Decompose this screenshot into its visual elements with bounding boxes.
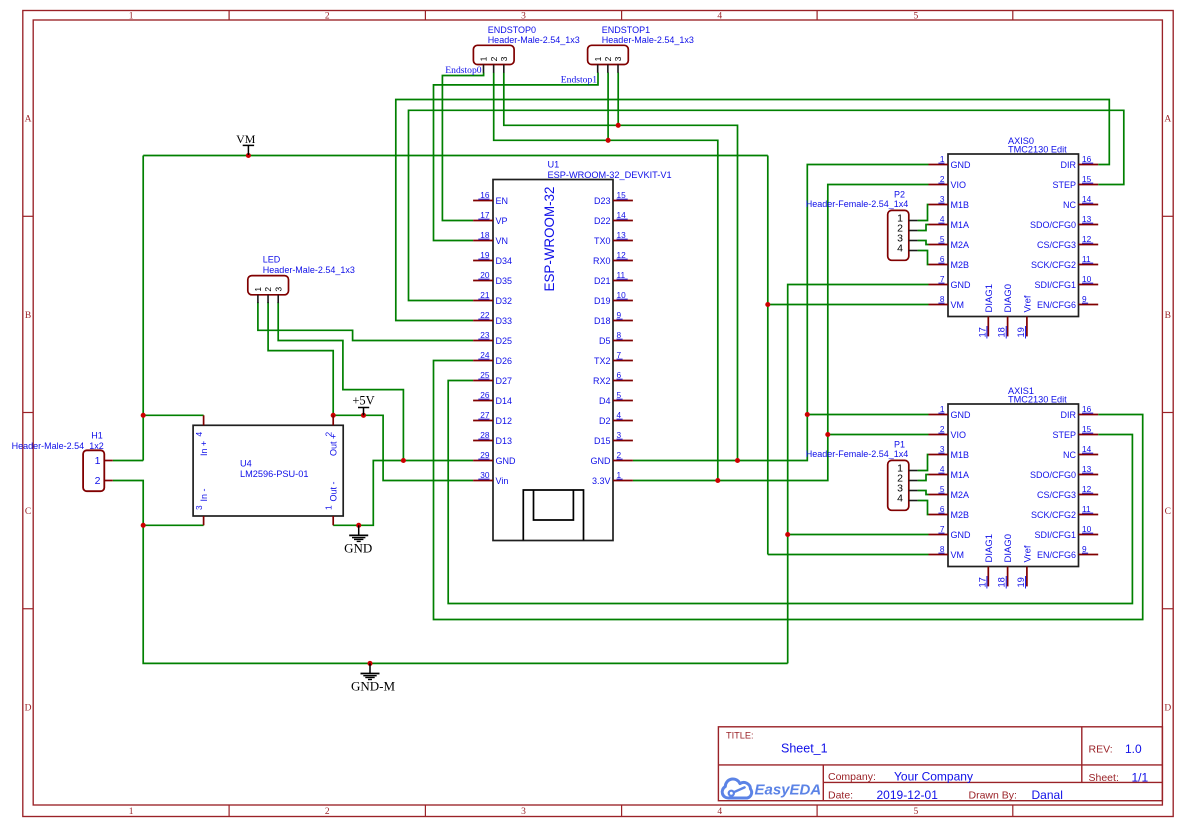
svg-text:In +: In + — [199, 441, 209, 456]
svg-text:1: 1 — [940, 154, 945, 164]
svg-text:ESP-WROOM-32_DEVKIT-V1: ESP-WROOM-32_DEVKIT-V1 — [548, 170, 672, 180]
U1 pin 18 VN — [473, 230, 508, 246]
svg-text:2: 2 — [325, 807, 330, 817]
svg-text:29: 29 — [480, 450, 490, 460]
svg-text:2: 2 — [940, 424, 945, 434]
svg-text:10: 10 — [1082, 274, 1092, 284]
svg-text:H1: H1 — [91, 431, 103, 441]
wire GND-M net: H1 pin2, U4 In-, AXIS pin7 — [113, 285, 929, 664]
svg-text:4: 4 — [897, 243, 903, 255]
svg-text:REV:: REV: — [1089, 743, 1113, 755]
svg-text:DIAG0: DIAG0 — [1003, 534, 1014, 563]
wire net Endstop1 to ESP VN — [434, 73, 599, 241]
svg-text:SCK/CFG2: SCK/CFG2 — [1031, 260, 1076, 270]
ground symbol GND-M — [351, 663, 395, 693]
ENDSTOP1 Header-Male-2.54_1x3 — [588, 25, 694, 65]
svg-text:1: 1 — [593, 56, 603, 61]
power symbol +5V — [352, 394, 374, 416]
svg-text:GND-M: GND-M — [351, 678, 395, 693]
power symbol VM — [236, 132, 256, 155]
svg-text:1/1: 1/1 — [1132, 771, 1149, 785]
svg-text:3: 3 — [194, 505, 204, 510]
svg-text:Sheet:: Sheet: — [1089, 772, 1119, 784]
AXIS1 pin 2 VIO — [929, 424, 967, 440]
svg-text:13: 13 — [617, 230, 627, 240]
AXIS1 pin 11 SCK/CFG2 — [1031, 504, 1098, 520]
ENDSTOP0 Header-Male-2.54_1x3 — [473, 25, 579, 65]
U1 pin 16 EN — [473, 190, 508, 206]
svg-text:D27: D27 — [496, 376, 513, 386]
svg-text:D32: D32 — [496, 296, 513, 306]
AXIS1 pin 10 SDI/CFG1 — [1034, 524, 1098, 540]
svg-text:14: 14 — [1082, 194, 1092, 204]
svg-text:17: 17 — [977, 327, 987, 337]
svg-text:TMC2130 Edit: TMC2130 Edit — [1008, 144, 1067, 154]
pin 1 — [897, 213, 918, 225]
wire LED pin1 to ESP D25 — [258, 302, 473, 341]
svg-text:B: B — [25, 311, 31, 321]
pin 1 — [479, 56, 489, 72]
AXIS0 pin 4 M1A — [929, 214, 970, 230]
svg-text:VM: VM — [951, 300, 965, 310]
svg-text:M2B: M2B — [951, 510, 970, 520]
svg-text:16: 16 — [480, 190, 490, 200]
svg-text:10: 10 — [617, 290, 627, 300]
svg-text:2: 2 — [263, 287, 273, 292]
svg-text:7: 7 — [617, 350, 622, 360]
svg-text:26: 26 — [480, 390, 490, 400]
svg-text:3.3V: 3.3V — [592, 476, 611, 486]
svg-text:C: C — [1165, 507, 1171, 517]
svg-text:EN/CFG6: EN/CFG6 — [1037, 550, 1076, 560]
svg-text:16: 16 — [1082, 404, 1092, 414]
P2 Header-Female-2.54_1x4 — [806, 190, 909, 261]
svg-text:GND: GND — [344, 540, 372, 555]
title block — [718, 727, 1162, 802]
U1 pin 26 D14 — [473, 390, 512, 406]
svg-text:Date:: Date: — [828, 790, 853, 802]
svg-text:4: 4 — [617, 410, 622, 420]
U1 pin 27 D12 — [473, 410, 512, 426]
wire +5V net: U4 Out+, LED pin2, ESP Vin — [268, 302, 473, 481]
svg-text:D: D — [25, 703, 32, 713]
pin 2 — [897, 223, 918, 235]
wire AXIS1 DIR to ESP D26 — [434, 361, 1143, 620]
svg-text:Header-Male-2.54_1x3: Header-Male-2.54_1x3 — [263, 265, 355, 275]
AXIS0 pin 13 SDO/CFG0 — [1030, 214, 1098, 230]
svg-text:Drawn By:: Drawn By: — [969, 790, 1017, 802]
svg-text:CS/CFG3: CS/CFG3 — [1037, 240, 1076, 250]
svg-text:DIAG1: DIAG1 — [984, 284, 995, 313]
svg-text:LM2596-PSU-01: LM2596-PSU-01 — [240, 469, 308, 479]
svg-text:SDI/CFG1: SDI/CFG1 — [1034, 280, 1076, 290]
pin 4 — [897, 493, 918, 505]
svg-text:Header-Male-2.54_1x3: Header-Male-2.54_1x3 — [488, 35, 580, 45]
svg-text:EN: EN — [496, 196, 509, 206]
svg-text:D23: D23 — [594, 196, 611, 206]
svg-text:4: 4 — [717, 807, 722, 817]
svg-text:Your Company: Your Company — [894, 770, 973, 784]
svg-text:14: 14 — [617, 210, 627, 220]
svg-text:M2B: M2B — [951, 260, 970, 270]
svg-text:1: 1 — [940, 404, 945, 414]
svg-text:D18: D18 — [594, 316, 611, 326]
svg-text:DIR: DIR — [1061, 410, 1077, 420]
svg-text:21: 21 — [480, 290, 490, 300]
svg-text:A: A — [1164, 115, 1171, 125]
AXIS1 pin 6 M2B — [929, 504, 970, 520]
LED Header-Male-2.54_1x3 — [248, 255, 355, 295]
AXIS0 pin 6 M2B — [929, 254, 970, 270]
AXIS0 pin 2 VIO — [929, 174, 967, 190]
AXIS1 pin 13 SDO/CFG0 — [1030, 464, 1098, 480]
AXIS0 pin 10 SDI/CFG1 — [1034, 274, 1098, 290]
svg-text:20: 20 — [480, 270, 490, 280]
svg-text:SCK/CFG2: SCK/CFG2 — [1031, 510, 1076, 520]
svg-text:3: 3 — [521, 807, 526, 817]
AXIS1 pin 12 CS/CFG3 — [1037, 484, 1098, 500]
svg-text:15: 15 — [1082, 174, 1092, 184]
svg-text:TITLE:: TITLE: — [726, 731, 754, 741]
wire AXIS0 STEP to ESP D32 — [409, 110, 1124, 300]
svg-text:18: 18 — [997, 577, 1007, 587]
svg-text:NC: NC — [1063, 450, 1076, 460]
svg-text:DIR: DIR — [1061, 160, 1077, 170]
svg-text:D34: D34 — [496, 256, 513, 266]
svg-text:4: 4 — [194, 432, 204, 437]
pin 2 — [263, 287, 273, 303]
op-amp U4 LM2596-PSU-01 — [193, 425, 343, 516]
svg-text:D: D — [1164, 703, 1171, 713]
AXIS1 pin 8 VM — [929, 544, 965, 560]
U1 pin 28 D13 — [473, 430, 512, 446]
U1 pin 7 TX2 — [594, 350, 633, 366]
AXIS0 pin 7 GND — [929, 274, 972, 290]
svg-text:VP: VP — [496, 216, 508, 226]
svg-text:D19: D19 — [594, 296, 611, 306]
svg-text:Endstop0: Endstop0 — [445, 65, 481, 76]
svg-text:4: 4 — [717, 12, 722, 22]
svg-text:18: 18 — [480, 230, 490, 240]
svg-text:1: 1 — [253, 287, 263, 292]
pin 1 — [253, 287, 263, 303]
svg-text:5: 5 — [940, 484, 945, 494]
svg-text:19: 19 — [1016, 577, 1026, 587]
H1 pin 1 — [95, 455, 113, 467]
svg-text:28: 28 — [480, 430, 490, 440]
U1 pin 15 D23 — [594, 190, 633, 206]
pin 3 — [897, 483, 918, 495]
svg-text:In -: In - — [199, 488, 209, 501]
svg-text:7: 7 — [940, 274, 945, 284]
svg-text:EN/CFG6: EN/CFG6 — [1037, 300, 1076, 310]
svg-text:Company:: Company: — [828, 771, 876, 783]
AXIS0 pin 9 EN/CFG6 — [1037, 294, 1098, 310]
svg-text:8: 8 — [940, 544, 945, 554]
svg-text:VIO: VIO — [951, 430, 967, 440]
svg-text:VM: VM — [951, 550, 965, 560]
U1 pin 25 D27 — [473, 370, 512, 386]
svg-text:GND: GND — [496, 456, 517, 466]
svg-text:2019-12-01: 2019-12-01 — [877, 788, 939, 802]
AXIS0 pin 5 M2A — [929, 234, 970, 250]
svg-text:SDO/CFG0: SDO/CFG0 — [1030, 470, 1076, 480]
svg-text:GND: GND — [951, 160, 972, 170]
U1 pin 20 D35 — [473, 270, 512, 286]
U1 pin 22 D33 — [473, 310, 512, 326]
AXIS1 pin 5 M2A — [929, 484, 970, 500]
wire endstop pin3 net to GND — [504, 73, 738, 461]
U4 pin 4 In+ — [194, 415, 209, 456]
U1 pin 17 VP — [473, 210, 507, 226]
svg-text:24: 24 — [480, 350, 490, 360]
svg-text:VIO: VIO — [951, 180, 967, 190]
svg-text:Vref: Vref — [1023, 545, 1034, 562]
svg-text:M1B: M1B — [951, 200, 970, 210]
svg-text:1: 1 — [323, 505, 333, 510]
wire P1 to AXIS motor pins — [918, 455, 929, 515]
svg-text:GND: GND — [951, 530, 972, 540]
U1 pin 29 GND — [473, 450, 516, 466]
pin 2 — [489, 56, 499, 72]
U1 pin 21 D32 — [473, 290, 512, 306]
AXIS1 pin 16 DIR — [1061, 404, 1099, 420]
pin 2 — [603, 56, 613, 72]
U1 pin 3 D15 — [594, 430, 633, 446]
svg-text:D25: D25 — [496, 336, 513, 346]
svg-text:19: 19 — [1016, 327, 1026, 337]
svg-text:17: 17 — [480, 210, 490, 220]
svg-text:SDO/CFG0: SDO/CFG0 — [1030, 220, 1076, 230]
AXIS1 pin 14 NC — [1063, 444, 1098, 460]
svg-text:M1B: M1B — [951, 450, 970, 460]
svg-text:D2: D2 — [599, 416, 611, 426]
AXIS1 pin 15 STEP — [1052, 424, 1098, 440]
svg-text:1: 1 — [129, 12, 134, 22]
pin 1 — [897, 463, 918, 475]
AXIS0 pin 8 VM — [929, 294, 965, 310]
U1 pin 11 D21 — [594, 270, 633, 286]
svg-text:8: 8 — [617, 330, 622, 340]
pin 3 — [499, 56, 509, 72]
svg-text:TX0: TX0 — [594, 236, 611, 246]
svg-text:D26: D26 — [496, 356, 513, 366]
U1 pin 8 D5 — [599, 330, 633, 346]
svg-text:17: 17 — [977, 577, 987, 587]
AXIS1 pin 18 DIAG0 — [997, 534, 1015, 589]
pin 3 — [613, 56, 623, 72]
wire GND net: U4 Out-, ESP GND, LED pin3, AXIS GND pins — [278, 165, 928, 526]
svg-text:Sheet_1: Sheet_1 — [781, 742, 828, 756]
svg-text:9: 9 — [1082, 544, 1087, 554]
H1 pin 2 — [95, 475, 113, 487]
P1 Header-Female-2.54_1x4 — [806, 440, 909, 511]
svg-text:CS/CFG3: CS/CFG3 — [1037, 490, 1076, 500]
AXIS0 pin 11 SCK/CFG2 — [1031, 254, 1098, 270]
svg-text:GND: GND — [591, 456, 612, 466]
AXIS0 pin 17 DIAG1 — [977, 284, 995, 339]
svg-text:13: 13 — [1082, 214, 1092, 224]
svg-text:18: 18 — [997, 327, 1007, 337]
svg-text:2: 2 — [940, 174, 945, 184]
svg-text:3: 3 — [940, 444, 945, 454]
svg-text:1.0: 1.0 — [1125, 742, 1142, 756]
svg-text:2: 2 — [325, 12, 330, 22]
svg-text:14: 14 — [1082, 444, 1092, 454]
op-amp AXIS0 TMC2130 — [948, 136, 1079, 317]
svg-text:10: 10 — [1082, 524, 1092, 534]
svg-text:D22: D22 — [594, 216, 611, 226]
U1 pin 23 D25 — [473, 330, 512, 346]
svg-text:Out +: Out + — [329, 434, 339, 456]
svg-text:TX2: TX2 — [594, 356, 611, 366]
AXIS0 pin 16 DIR — [1061, 154, 1099, 170]
svg-text:TMC2130 Edit: TMC2130 Edit — [1008, 394, 1067, 404]
op-amp U1 ESP-WROOM-32_DEVKIT-V1 — [493, 160, 672, 541]
svg-text:5: 5 — [940, 234, 945, 244]
wire AXIS1 STEP to ESP D27 — [448, 381, 1132, 604]
AXIS0 pin 15 STEP — [1052, 174, 1098, 190]
AXIS0 pin 19 Vref — [1016, 295, 1034, 338]
AXIS1 pin 9 EN/CFG6 — [1037, 544, 1098, 560]
U1 pin 24 D26 — [473, 350, 512, 366]
svg-text:6: 6 — [940, 504, 945, 514]
svg-text:3: 3 — [940, 194, 945, 204]
wire AXIS0 DIR to ESP D33 — [396, 100, 1110, 321]
svg-text:C: C — [25, 507, 31, 517]
U1 pin 10 D19 — [594, 290, 633, 306]
pin 3 — [897, 233, 918, 245]
svg-text:1: 1 — [617, 470, 622, 480]
svg-text:DIAG0: DIAG0 — [1003, 284, 1014, 313]
U4 pin 2 Out+ — [323, 415, 338, 456]
svg-text:11: 11 — [617, 270, 626, 280]
svg-text:2: 2 — [95, 475, 101, 487]
svg-text:12: 12 — [617, 250, 627, 260]
svg-text:VM: VM — [236, 132, 256, 146]
svg-text:EasyEDA: EasyEDA — [755, 782, 822, 799]
svg-text:2: 2 — [489, 56, 499, 61]
svg-text:6: 6 — [617, 370, 622, 380]
svg-text:Vin: Vin — [496, 476, 509, 486]
svg-text:16: 16 — [1082, 154, 1092, 164]
svg-text:Out -: Out - — [329, 481, 339, 501]
svg-text:Header-Male-2.54_1x3: Header-Male-2.54_1x3 — [602, 35, 694, 45]
wire P2 to AXIS motor pins — [918, 205, 929, 265]
svg-text:3: 3 — [617, 430, 622, 440]
svg-text:Danal: Danal — [1032, 788, 1063, 802]
svg-text:2: 2 — [617, 450, 622, 460]
wire net Endstop0 to ESP VP — [442, 73, 483, 221]
U1 pin 13 TX0 — [594, 230, 633, 246]
AXIS1 pin 7 GND — [929, 524, 972, 540]
svg-text:3: 3 — [273, 287, 283, 292]
svg-text:D15: D15 — [594, 436, 611, 446]
svg-text:15: 15 — [1082, 424, 1092, 434]
svg-text:25: 25 — [480, 370, 490, 380]
U1 pin 1 3.3V — [592, 470, 633, 486]
H1 Header-Male-2.54_1x2 — [12, 431, 105, 491]
U1 pin 4 D2 — [599, 410, 633, 426]
svg-text:ENDSTOP1: ENDSTOP1 — [602, 25, 650, 35]
EasyEDA logo — [722, 779, 821, 799]
svg-text:7: 7 — [940, 524, 945, 534]
svg-text:Vref: Vref — [1023, 295, 1034, 312]
AXIS1 pin 17 DIAG1 — [977, 534, 995, 589]
svg-text:12: 12 — [1082, 234, 1092, 244]
U1 pin 30 Vin — [473, 470, 508, 486]
U1 pin 6 RX2 — [593, 370, 633, 386]
svg-text:ESP-WROOM-32: ESP-WROOM-32 — [542, 187, 557, 292]
svg-text:D33: D33 — [496, 316, 513, 326]
svg-text:13: 13 — [1082, 464, 1092, 474]
svg-text:15: 15 — [617, 190, 627, 200]
wire 3.3V net: ESP 3.3V, AXIS VIO pins, endstop pin2 net — [494, 73, 929, 481]
svg-text:RX0: RX0 — [593, 256, 611, 266]
svg-text:5: 5 — [914, 12, 919, 22]
svg-text:11: 11 — [1082, 254, 1091, 264]
AXIS0 pin 3 M1B — [929, 194, 970, 210]
svg-text:GND: GND — [951, 410, 972, 420]
svg-text:ENDSTOP0: ENDSTOP0 — [488, 25, 536, 35]
svg-text:D14: D14 — [496, 396, 513, 406]
AXIS0 pin 1 GND — [929, 154, 972, 170]
U1 pin 2 GND — [591, 450, 633, 466]
svg-text:VN: VN — [496, 236, 509, 246]
svg-text:12: 12 — [1082, 484, 1092, 494]
svg-text:1: 1 — [95, 455, 101, 467]
svg-text:M2A: M2A — [951, 240, 970, 250]
svg-text:1: 1 — [129, 807, 134, 817]
svg-text:D5: D5 — [599, 336, 611, 346]
AXIS1 pin 19 Vref — [1016, 545, 1034, 588]
AXIS0 pin 18 DIAG0 — [997, 284, 1015, 339]
AXIS0 pin 14 NC — [1063, 194, 1098, 210]
svg-text:30: 30 — [480, 470, 490, 480]
svg-text:U1: U1 — [548, 160, 560, 170]
U1 pin 9 D18 — [594, 310, 633, 326]
svg-text:GND: GND — [951, 280, 972, 290]
svg-text:D12: D12 — [496, 416, 513, 426]
U1 pin 12 RX0 — [593, 250, 633, 266]
U4 pin 3 In- — [194, 488, 209, 525]
svg-text:19: 19 — [480, 250, 490, 260]
svg-text:D4: D4 — [599, 396, 611, 406]
svg-text:DIAG1: DIAG1 — [984, 534, 995, 563]
svg-text:P2: P2 — [894, 190, 905, 200]
svg-text:8: 8 — [940, 294, 945, 304]
svg-text:9: 9 — [617, 310, 622, 320]
svg-text:5: 5 — [617, 390, 622, 400]
svg-text:NC: NC — [1063, 200, 1076, 210]
svg-text:A: A — [25, 115, 32, 125]
AXIS1 pin 4 M1A — [929, 464, 970, 480]
svg-text:D21: D21 — [594, 276, 611, 286]
svg-text:B: B — [1165, 311, 1171, 321]
AXIS1 pin 3 M1B — [929, 444, 970, 460]
pin 1 — [593, 56, 603, 72]
svg-text:RX2: RX2 — [593, 376, 611, 386]
svg-text:4: 4 — [940, 214, 945, 224]
U1 pin 14 D22 — [594, 210, 633, 226]
svg-text:+5V: +5V — [352, 394, 374, 408]
AXIS0 pin 12 CS/CFG3 — [1037, 234, 1098, 250]
svg-text:STEP: STEP — [1052, 180, 1076, 190]
pin 3 — [273, 287, 283, 303]
op-amp AXIS1 TMC2130 — [948, 386, 1079, 567]
svg-text:D35: D35 — [496, 276, 513, 286]
ground symbol GND — [344, 525, 372, 555]
